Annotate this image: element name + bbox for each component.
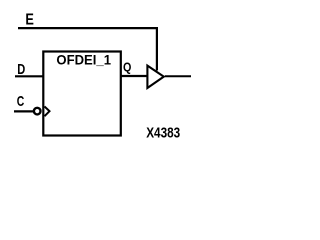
pin bubble on C (inverted clock): [34, 108, 41, 115]
wire Q to buffer input: [121, 75, 147, 77]
svg-text:X4383: X4383: [146, 126, 180, 142]
svg-text:E: E: [25, 12, 34, 29]
svg-text:Q: Q: [123, 60, 132, 74]
flip-flop U1 OFDEI_1 box: [43, 52, 121, 136]
wire E horizontal and vertical to buffer enable: [18, 28, 157, 70]
wire buffer output: [165, 75, 191, 77]
wire D input: [15, 75, 44, 77]
tri-state buffer U2: [147, 66, 163, 88]
svg-text:OFDEI_1: OFDEI_1: [56, 51, 111, 67]
wire C input: [14, 110, 33, 112]
svg-text:C: C: [17, 93, 25, 110]
clock chevron inside box: [45, 107, 50, 117]
